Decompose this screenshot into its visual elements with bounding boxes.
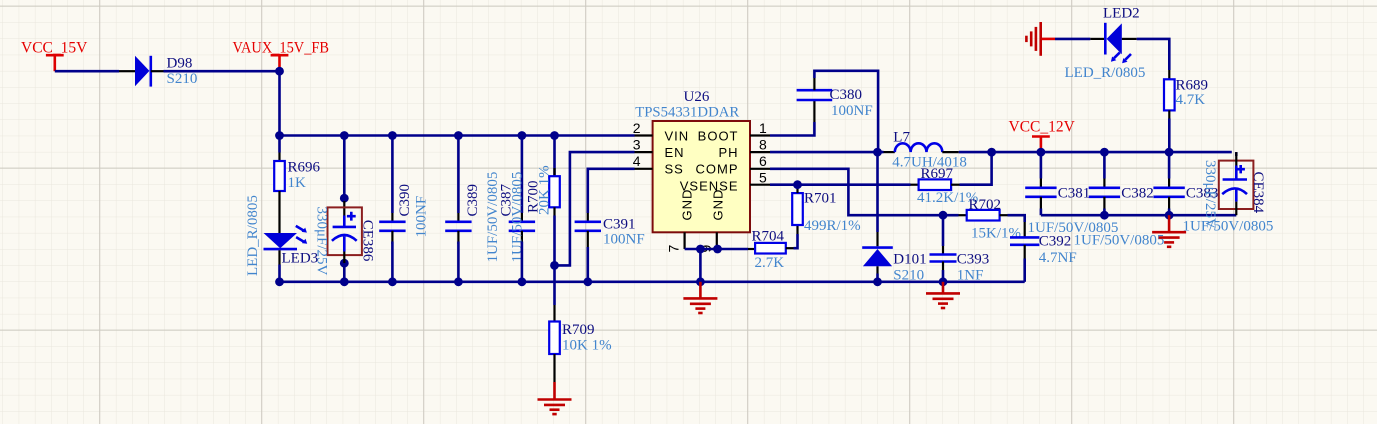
- wire VIN bus to R700: [553, 136, 556, 177]
- junction GND bus at C390: [388, 277, 397, 286]
- wire GND tie down to GND bus: [699, 249, 702, 282]
- wire VCC_12V bus to CE384: [1235, 152, 1238, 156]
- junction GND tie right: [713, 245, 722, 254]
- inductor L7: [884, 151, 895, 153]
- pin 9 GND: [716, 232, 718, 249]
- svg-text:LED_R/0805: LED_R/0805: [245, 195, 261, 276]
- svg-text:100NF: 100NF: [603, 231, 645, 247]
- resistor R702: [959, 214, 967, 216]
- junction VCC_12V at C382: [1100, 148, 1109, 157]
- junction GND bus at IC ground: [696, 277, 705, 286]
- junction COMP node at C393: [939, 211, 948, 220]
- wire R697 to VOUT: [960, 152, 992, 185]
- svg-text:C391: C391: [603, 217, 636, 233]
- svg-text:D101: D101: [893, 252, 926, 268]
- svg-text:2: 2: [633, 120, 641, 136]
- svg-text:100NF: 100NF: [414, 196, 430, 238]
- junction GND bus at LED3: [275, 277, 284, 286]
- junction GND bus at C391: [583, 277, 592, 286]
- ground below R709: [553, 382, 556, 400]
- svg-text:5: 5: [759, 170, 767, 186]
- junction rail at C383: [1165, 211, 1174, 220]
- svg-text:1UF/50V/0805: 1UF/50V/0805: [1074, 233, 1165, 249]
- power symbol VCC_15V bar: [46, 54, 64, 57]
- junction VIN bus at C389: [454, 131, 463, 140]
- wire PH pin8 to L7: [770, 151, 884, 154]
- wire VIN bus to CE386: [343, 136, 346, 202]
- wire CE384 to output rail: [1235, 202, 1237, 216]
- junction above CE386: [340, 194, 349, 203]
- svg-text:1K: 1K: [288, 175, 307, 191]
- svg-text:4: 4: [633, 153, 641, 169]
- wire D98 cathode to VAUX node: [164, 70, 280, 73]
- wire C383 to output rail: [1168, 209, 1171, 216]
- resistor R689: [1168, 70, 1170, 79]
- resistor R701: [796, 225, 798, 234]
- diode D98: [119, 70, 135, 72]
- svg-text:100NF: 100NF: [831, 103, 873, 119]
- wire VSENSE pin5 to R697: [770, 183, 911, 186]
- wire L7 to VCC_12V bus: [959, 151, 1232, 154]
- svg-text:S210: S210: [167, 71, 198, 87]
- pin 6 COMP: [750, 168, 770, 170]
- svg-text:COMP: COMP: [696, 162, 739, 177]
- junction below CE386: [340, 259, 349, 268]
- pin 5 VSENSE: [750, 184, 770, 186]
- svg-text:CE386: CE386: [359, 220, 375, 262]
- power symbol VAUX_15V_FB bar: [271, 54, 289, 57]
- svg-text:SS: SS: [665, 162, 684, 177]
- wire BOOT to C380: [770, 122, 814, 136]
- resistor R696: [278, 153, 280, 162]
- wire C391 to GND bus: [586, 247, 589, 282]
- pin 7 GND: [683, 232, 685, 249]
- ground below GND bus at IC: [699, 282, 702, 299]
- svg-text:6: 6: [759, 153, 767, 169]
- junction VCC_12V at C381: [1037, 148, 1046, 157]
- wire C382 to output rail: [1103, 209, 1106, 216]
- wire R704 to R701: [794, 234, 798, 248]
- svg-text:C390: C390: [397, 184, 413, 217]
- junction VIN bus at R696: [275, 131, 284, 140]
- svg-text:U26: U26: [684, 89, 710, 105]
- wire R689 to VCC_12V bus: [1168, 119, 1171, 153]
- junction GND bus at C393: [939, 277, 948, 286]
- wire C380 to PH node: [814, 71, 878, 152]
- svg-text:499R/1%: 499R/1%: [804, 218, 861, 234]
- op-amp U26 TPS54331DDAR body: [653, 121, 750, 232]
- svg-text:330μF/25V: 330μF/25V: [1202, 160, 1218, 229]
- svg-text:4.7K: 4.7K: [1176, 92, 1206, 108]
- wire COMP pin6 down: [770, 169, 959, 215]
- wire R696 to LED3: [278, 191, 280, 233]
- wire CE386 to GND bus: [343, 252, 345, 264]
- wire SS pin4 to C391: [588, 169, 635, 213]
- wire GND bus: [280, 280, 1025, 283]
- svg-text:C381: C381: [1058, 186, 1091, 202]
- resistor R700: [553, 168, 555, 176]
- svg-text:330μF/25V: 330μF/25V: [313, 207, 329, 276]
- svg-text:BOOT: BOOT: [698, 128, 739, 143]
- junction VOUT at R697: [987, 148, 996, 157]
- ground below GND bus at C393: [942, 282, 945, 294]
- svg-text:D98: D98: [167, 56, 193, 72]
- pin 1 BOOT: [750, 134, 770, 136]
- wire PH node down to D101: [876, 152, 879, 232]
- pin 2 VIN: [635, 134, 653, 136]
- wire VCC_12V bus to C383: [1168, 152, 1171, 178]
- capacitor C390: [391, 213, 393, 222]
- svg-text:2.7K: 2.7K: [755, 255, 785, 271]
- svg-text:VIN: VIN: [665, 128, 690, 143]
- wire EN pin3 to R700 divider: [555, 152, 635, 265]
- wire VIN bus to C389: [457, 136, 460, 214]
- svg-text:4.7NF: 4.7NF: [1039, 250, 1077, 266]
- svg-text:10K 1%: 10K 1%: [562, 338, 612, 354]
- junction VIN bus at C390: [388, 131, 397, 140]
- pin 8 PH: [750, 151, 770, 153]
- capacitor C393: [942, 246, 944, 255]
- resistor R704: [748, 248, 755, 250]
- wire D101 to GND bus: [876, 274, 879, 282]
- junction VIN bus at R700: [550, 131, 559, 140]
- junction VIN bus at CE386: [340, 131, 349, 140]
- svg-text:LED_R/0805: LED_R/0805: [1065, 65, 1146, 81]
- junction EN node: [550, 261, 559, 270]
- svg-text:3: 3: [633, 136, 641, 152]
- junction GND bus at CE386: [340, 277, 349, 286]
- svg-text:C389: C389: [465, 184, 481, 217]
- power symbol VCC_12V bar: [1032, 135, 1050, 138]
- capacitor C380: [813, 100, 815, 122]
- svg-text:GND: GND: [711, 189, 726, 221]
- svg-text:GND: GND: [679, 189, 694, 221]
- wire R702 to C392: [1008, 215, 1025, 222]
- svg-text:1NF: 1NF: [957, 268, 984, 284]
- svg-text:R702: R702: [969, 197, 1002, 213]
- wire C393 to GND bus: [942, 270, 945, 282]
- wire EN node down to R709: [553, 265, 556, 305]
- wire VIN bus to C387: [521, 136, 524, 214]
- svg-text:4.7UH/4018: 4.7UH/4018: [892, 155, 967, 171]
- wire C387 to GND bus: [521, 242, 524, 282]
- svg-text:C393: C393: [957, 252, 990, 268]
- svg-text:PH: PH: [718, 145, 738, 160]
- wire COMP node to C393: [942, 215, 945, 246]
- svg-text:7: 7: [666, 245, 682, 253]
- junction VIN bus at C387: [518, 131, 527, 140]
- svg-text:TPS54331DDAR: TPS54331DDAR: [635, 105, 739, 121]
- svg-text:C380: C380: [830, 87, 863, 103]
- wire C392 to GND bus: [1023, 259, 1026, 282]
- svg-text:15K/1%: 15K/1%: [971, 226, 1021, 242]
- wire VIN bus to R696: [278, 136, 281, 153]
- svg-text:8: 8: [759, 136, 767, 152]
- capacitor C387: [521, 213, 523, 222]
- svg-text:S210: S210: [893, 268, 924, 284]
- junction GND bus at C387: [518, 277, 527, 286]
- wire GND pins tie: [685, 248, 748, 251]
- capacitor C381: [1040, 179, 1042, 188]
- svg-text:C382: C382: [1121, 186, 1154, 202]
- junction GND bus at C389: [454, 277, 463, 286]
- pin 4 SS: [635, 168, 653, 170]
- svg-text:R704: R704: [752, 228, 785, 244]
- svg-text:C392: C392: [1039, 234, 1072, 250]
- junction VSENSE at R701: [793, 180, 802, 189]
- svg-text:CE384: CE384: [1250, 172, 1266, 214]
- svg-text:VCC_12V: VCC_12V: [1009, 118, 1076, 135]
- resistor R709: [553, 305, 555, 322]
- wire VCC_15V to D98 anode: [55, 70, 119, 73]
- svg-text:EN: EN: [665, 145, 685, 160]
- LED LED2: [1090, 38, 1104, 40]
- capacitor C382: [1103, 179, 1105, 188]
- wire R701 to VSENSE: [796, 185, 799, 186]
- junction GND tie left: [696, 245, 705, 254]
- wire VIN bus: [280, 134, 635, 137]
- capacitor CE384 electrolytic: [1219, 161, 1254, 209]
- junction rail at C382: [1100, 211, 1109, 220]
- diode D101: [876, 232, 878, 246]
- capacitor C392: [1024, 222, 1026, 237]
- wire VIN bus to C390: [391, 136, 394, 214]
- resistor R697: [911, 184, 919, 186]
- LED LED3: [264, 233, 298, 248]
- pin 3 EN: [635, 151, 653, 153]
- svg-text:R696: R696: [288, 160, 321, 176]
- wire C389 to GND bus: [457, 242, 460, 282]
- capacitor C391: [587, 213, 589, 222]
- wire LED3 to GND bus: [278, 250, 280, 264]
- wire C390 to GND bus: [391, 242, 394, 282]
- wire ground to LED2: [1055, 38, 1090, 41]
- wire output ground rail: [1041, 214, 1236, 217]
- svg-text:1: 1: [759, 120, 767, 136]
- junction GND bus at D101: [873, 277, 882, 286]
- junction VCC_12V at C383: [1165, 148, 1174, 157]
- capacitor C383: [1168, 179, 1170, 188]
- ground below output rail: [1168, 215, 1171, 232]
- capacitor C389: [457, 213, 459, 222]
- wire R700 to EN node: [553, 216, 556, 266]
- svg-text:R709: R709: [562, 322, 595, 338]
- wire C381 to output rail: [1040, 209, 1043, 216]
- wire VCC_12V bus to C382: [1103, 152, 1106, 178]
- wire VCC_12V bus to C381: [1040, 152, 1043, 178]
- ground left of LED2: [1039, 22, 1042, 56]
- svg-text:20K 1%: 20K 1%: [536, 165, 552, 215]
- svg-text:L7: L7: [893, 130, 910, 146]
- svg-text:1UF/50V/0805: 1UF/50V/0805: [1183, 218, 1274, 234]
- wire VAUX node down to VIN bus: [278, 71, 281, 135]
- svg-text:LED2: LED2: [1103, 5, 1140, 21]
- wire LED2 to R689: [1137, 39, 1170, 70]
- junction VAUX node: [275, 67, 284, 76]
- capacitor CE386 electrolytic: [343, 201, 345, 216]
- svg-text:LED3: LED3: [282, 251, 319, 267]
- svg-text:R701: R701: [804, 191, 837, 207]
- junction PH node: [873, 148, 882, 157]
